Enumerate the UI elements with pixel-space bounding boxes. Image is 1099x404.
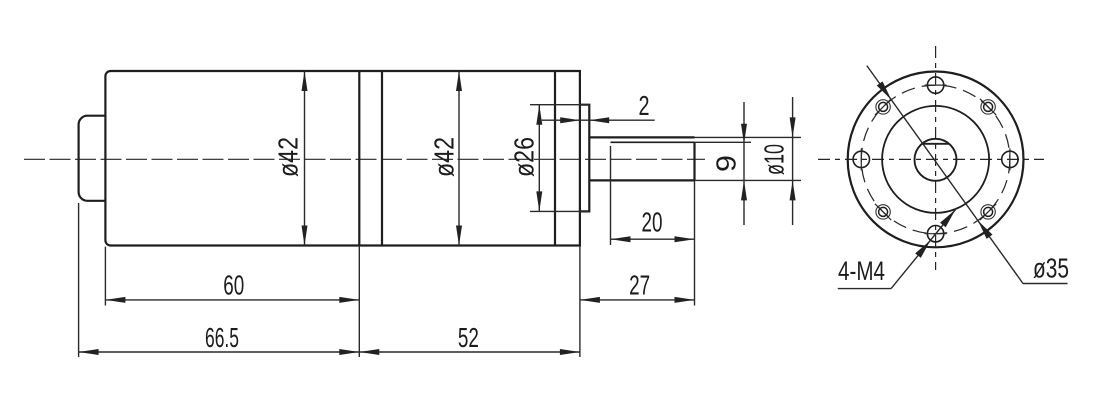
motor and gearbox body outline bbox=[105, 71, 580, 246]
svg-text:27: 27 bbox=[629, 270, 650, 301]
shaft end face bbox=[693, 142, 695, 180]
dimension phi42 gearbox bbox=[458, 71, 460, 246]
dimension phi10 shaft bbox=[792, 97, 794, 225]
bolt circle dash top hole bbox=[925, 84, 947, 86]
mounting hole bottom bbox=[927, 226, 943, 242]
shaft flat chord bbox=[922, 143, 949, 145]
extension line phi10 bottom bbox=[695, 179, 802, 181]
leader 4-M4 bbox=[891, 210, 955, 289]
front flange outer circle bbox=[848, 71, 1024, 247]
svg-text:ø42: ø42 bbox=[429, 137, 460, 177]
dimension 2 collar width bbox=[542, 119, 655, 121]
svg-text:ø26: ø26 bbox=[509, 137, 540, 177]
extension line phi26 bottom bbox=[530, 210, 589, 212]
svg-text:ø10: ø10 bbox=[759, 144, 790, 175]
threaded hole M4 upper-left bbox=[879, 102, 888, 111]
extension line flat 9 bbox=[695, 141, 752, 143]
dimension 60 motor length bbox=[105, 299, 359, 301]
bolt circle dash left hole bbox=[860, 148, 862, 170]
wire centerline side view bbox=[24, 158, 705, 160]
gearbox step line bbox=[554, 71, 556, 246]
output collar bbox=[580, 105, 589, 212]
front boss circle phi26 bbox=[882, 106, 989, 213]
threaded hole M4 lower-left bbox=[879, 207, 888, 216]
extension line gearbox face bbox=[579, 246, 581, 358]
extension line body left bbox=[104, 247, 106, 306]
svg-text:ø42: ø42 bbox=[273, 137, 304, 177]
svg-text:66.5: 66.5 bbox=[205, 322, 239, 353]
shaft bottom line bbox=[589, 179, 694, 181]
motor end cap bbox=[79, 116, 106, 201]
extension line phi10 top bbox=[695, 136, 802, 138]
svg-text:2: 2 bbox=[639, 90, 650, 121]
threaded hole M4 lower-right bbox=[984, 207, 993, 216]
dimension 66.5 overall bbox=[79, 351, 360, 353]
extension line phi26 top bbox=[530, 104, 589, 106]
svg-text:52: 52 bbox=[458, 322, 479, 353]
shaft top line bbox=[589, 136, 694, 138]
dimension 27 bbox=[580, 299, 695, 301]
extension line joint bbox=[358, 247, 360, 357]
bolt circle dash bottom hole bbox=[925, 233, 947, 235]
dimension phi42 motor bbox=[304, 71, 306, 246]
mounting hole top bbox=[927, 77, 943, 93]
threaded hole M4 upper-right bbox=[984, 102, 993, 111]
shaft hole circle bbox=[915, 139, 957, 181]
dimension phi26 bbox=[538, 105, 540, 212]
extension line shaft end bbox=[694, 180, 696, 305]
svg-text:4-M4: 4-M4 bbox=[838, 256, 885, 286]
dimension 52 gearbox length bbox=[359, 351, 580, 353]
joint line band right bbox=[381, 71, 383, 246]
front view vertical centerline bbox=[935, 46, 937, 270]
joint line motor-gearbox bbox=[358, 71, 360, 246]
svg-text:ø35: ø35 bbox=[1033, 253, 1069, 284]
dimension 9 shaft flat bbox=[743, 102, 745, 225]
leader phi35 bbox=[867, 66, 1023, 284]
mounting hole left bbox=[853, 151, 869, 167]
extension line cap left bbox=[78, 203, 80, 357]
front view horizontal centerline bbox=[818, 158, 1044, 160]
svg-text:20: 20 bbox=[642, 207, 663, 238]
extension line flat start bbox=[610, 146, 612, 245]
dimension 20 shaft length bbox=[611, 238, 695, 240]
bolt circle dash right hole bbox=[1009, 148, 1011, 170]
mounting hole right bbox=[1002, 151, 1018, 167]
bolt circle phi35 dashed bbox=[861, 85, 1010, 234]
svg-text:9: 9 bbox=[711, 155, 742, 172]
svg-text:60: 60 bbox=[223, 270, 244, 301]
shaft flat line bbox=[611, 141, 695, 143]
